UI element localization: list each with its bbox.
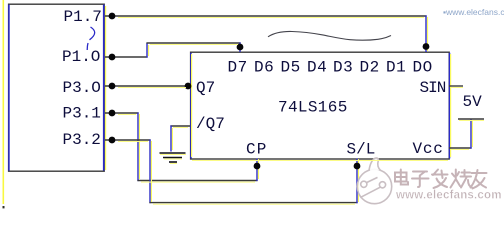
svg-text:CP: CP [246, 141, 268, 159]
svg-text:D4: D4 [307, 59, 327, 77]
svg-text:▪www.elecfans.com: ▪www.elecfans.com [443, 7, 504, 17]
svg-text:DO: DO [413, 59, 433, 77]
jpeg fringe strips [118, 17, 484, 205]
wire Vcc to 5V [449, 119, 473, 149]
junction dot S/L [354, 163, 361, 170]
svg-text:D1: D1 [386, 59, 406, 77]
svg-text:P1.O: P1.O [62, 48, 100, 66]
svg-text:P3.1: P3.1 [63, 105, 101, 123]
wire /Q7 stub [170, 125, 190, 127]
watermark logo circle [357, 158, 391, 204]
svg-text:Vcc: Vcc [413, 140, 444, 158]
5V supply bar [458, 118, 484, 120]
wire SIN stub [449, 85, 463, 87]
子 [412, 172, 429, 188]
友 [471, 170, 487, 189]
junction dot P3.0 [109, 83, 116, 90]
svg-text:SIN: SIN [420, 79, 446, 97]
junction dot P1.0 [109, 54, 116, 61]
ground [160, 153, 186, 162]
bus continuation wavy line [268, 31, 391, 40]
发 [432, 170, 448, 189]
svg-text:P3.O: P3.O [63, 79, 101, 97]
svg-text:D5: D5 [281, 59, 301, 77]
junction dot P3.1 [109, 110, 116, 117]
电 [395, 170, 408, 185]
scan artifact yellow line [3, 0, 5, 208]
74LS165 chip box [190, 52, 451, 159]
junction dot D7 [237, 44, 244, 51]
junction dot Q7 [185, 83, 192, 90]
svg-text:D6: D6 [254, 59, 274, 77]
junction dot CP [254, 163, 261, 170]
svg-text:5V: 5V [463, 93, 483, 111]
svg-text:S/L: S/L [347, 141, 376, 159]
junction dot P3.2 [109, 137, 116, 144]
svg-text:Q7: Q7 [196, 79, 215, 97]
svg-text:D7: D7 [228, 59, 248, 77]
svg-text:D2: D2 [360, 59, 380, 77]
continuation squiggle [90, 27, 95, 40]
wire P1.0 to D7 [105, 42, 241, 57]
wire P1.7 to D0 [105, 15, 428, 52]
svg-text:74LS165: 74LS165 [278, 99, 348, 117]
wire P3.2 to S/L [105, 139, 359, 203]
svg-text:P1.7: P1.7 [64, 8, 102, 26]
junction dot D0 [423, 43, 430, 50]
svg-text:D3: D3 [333, 59, 353, 77]
junction dot P1.7 [109, 13, 116, 20]
svg-text:www.elecfans.com: www.elecfans.com [395, 190, 502, 202]
microcontroller box [8, 4, 106, 171]
watermark chinese text 电子发烧友 (drawn) [395, 170, 487, 189]
svg-text:P3.2: P3.2 [63, 131, 101, 149]
svg-text:/Q7: /Q7 [196, 115, 225, 133]
烧 [451, 170, 473, 188]
wire P3.0 to Q7 [105, 85, 190, 87]
wire P3.1 to CP [105, 112, 259, 181]
